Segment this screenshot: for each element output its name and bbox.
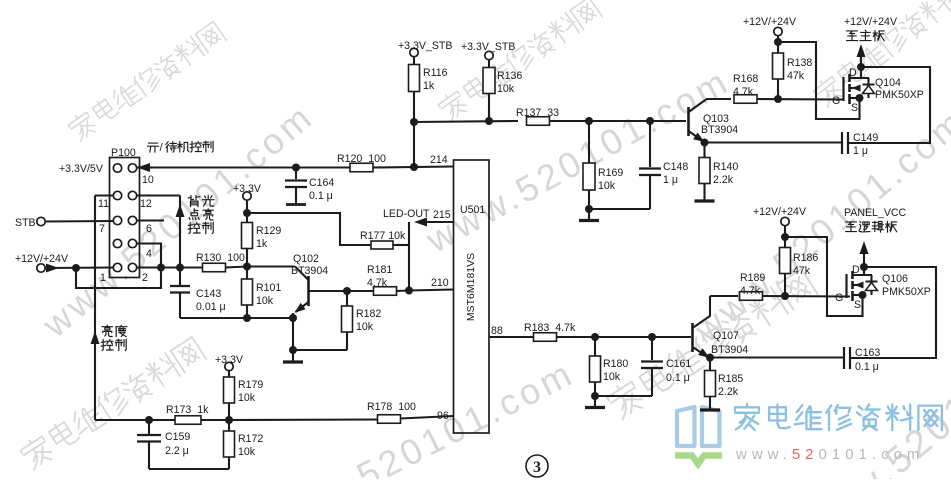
node emitter bottom rail	[289, 314, 297, 322]
node R169 junction	[585, 117, 593, 125]
wire emitter down	[292, 313, 294, 350]
svg-text:MST6M181VS: MST6M181VS	[465, 253, 477, 321]
node C148 junction	[646, 117, 654, 125]
svg-text:7: 7	[99, 223, 105, 235]
label 至主板	[847, 31, 858, 41]
svg-text:R179: R179	[238, 379, 263, 391]
wire +12V to source loop	[778, 42, 860, 119]
capacitor C149	[841, 132, 843, 154]
arrow LED-OUT	[414, 218, 427, 227]
wire emitter to C149	[705, 141, 842, 143]
node pin4/pin2 junction	[157, 264, 165, 272]
resistor R137	[527, 117, 550, 126]
label 点亮	[189, 209, 199, 220]
svg-text:LED-OUT: LED-OUT	[383, 208, 430, 220]
wire to R136	[488, 60, 490, 69]
svg-text:C159: C159	[165, 431, 190, 443]
wire R137 net left	[414, 121, 518, 122]
svg-text:2: 2	[142, 272, 148, 284]
arrow into pin10	[137, 163, 150, 172]
node C164 junction	[292, 164, 300, 172]
node R169/C148 bottom	[585, 205, 593, 213]
svg-text:C161: C161	[666, 358, 691, 370]
resistor R140	[699, 158, 710, 184]
svg-text:R186: R186	[793, 252, 818, 264]
wire U501 pin 215	[427, 221, 454, 223]
svg-text:+12V/+24V: +12V/+24V	[844, 16, 898, 28]
wire +12V under-loop	[76, 268, 161, 289]
wire R130 left	[180, 266, 203, 268]
svg-text:10k: 10k	[603, 371, 621, 383]
ground R185	[709, 397, 711, 410]
wire node to R172	[228, 420, 230, 431]
resistor R130	[203, 263, 226, 272]
node backlight/R130 junction	[176, 264, 184, 272]
node +12V junction	[72, 264, 80, 272]
svg-text:C164: C164	[309, 177, 334, 189]
node R129/R130/R101 junction	[243, 263, 251, 271]
wire R137 right	[550, 120, 651, 122]
capacitor C161	[651, 337, 653, 360]
wire to Q107 base	[652, 336, 691, 338]
node R181/R182 junction	[343, 287, 351, 295]
svg-text:U501: U501	[460, 204, 485, 216]
svg-text:3: 3	[533, 459, 541, 476]
terminal +12V (R186)	[781, 217, 789, 225]
arrow +12V right	[46, 264, 59, 273]
resistor R136	[483, 68, 495, 94]
node R116/R137 junction	[410, 118, 418, 126]
terminal +12V/+24V input	[37, 264, 45, 272]
node Q106 drain	[860, 263, 868, 271]
svg-text:R178 100: R178 100	[367, 401, 416, 413]
logo text 家电维修资料网	[735, 404, 759, 430]
wire R177 right	[393, 244, 409, 246]
page number 3 circled	[526, 455, 548, 477]
node Q103 emitter	[701, 139, 709, 147]
resistor R173	[175, 416, 201, 425]
arrow 至主板	[857, 44, 866, 57]
resistor R138	[773, 53, 784, 79]
wire backlight node to C143	[179, 268, 181, 286]
resistor R169	[583, 163, 595, 190]
label 开/待机控制	[148, 143, 159, 152]
resistor R168	[734, 95, 757, 104]
wire pin2	[136, 266, 180, 268]
svg-text:1 μ: 1 μ	[853, 145, 868, 157]
wire R168 right	[757, 98, 843, 101]
wire bottom link	[149, 468, 229, 470]
node R136/R137 junction	[485, 117, 493, 125]
capacitor C164	[295, 168, 297, 180]
svg-text:+3.3V/5V: +3.3V/5V	[59, 163, 104, 175]
wire +12V down (R186)	[784, 226, 786, 249]
wire drain up	[860, 55, 862, 78]
svg-text:+12V/+24V: +12V/+24V	[743, 16, 797, 28]
svg-text:10k: 10k	[256, 295, 274, 307]
ground R140	[703, 184, 705, 201]
transistor Q106 PMK50XP	[845, 274, 847, 298]
svg-text:R137 33: R137 33	[516, 107, 559, 119]
wire bottom link to C148	[589, 208, 650, 210]
terminal STB	[37, 217, 45, 225]
capacitor C163	[843, 347, 845, 369]
svg-text:4: 4	[146, 248, 152, 260]
terminal +3.3V_STB (R136)	[485, 51, 493, 59]
wire R116 down	[413, 92, 415, 123]
resistor R129	[242, 223, 253, 249]
logo book icon	[675, 407, 722, 464]
resistor R101	[242, 279, 253, 305]
wire collector to R168	[706, 98, 731, 100]
svg-text:0.1 μ: 0.1 μ	[309, 190, 333, 202]
wire R101 to bottom rail	[246, 305, 248, 318]
wire Q102 base	[247, 265, 295, 267]
wire STB to pin7	[45, 220, 114, 223]
wire R182 top	[346, 291, 348, 306]
svg-text:4.7k: 4.7k	[367, 277, 388, 289]
wire rail to R173	[149, 419, 175, 421]
wire emitter to C163	[710, 356, 843, 358]
svg-text:10k: 10k	[356, 321, 374, 333]
capacitor C159	[148, 420, 150, 434]
wire emitter to R140	[703, 143, 705, 159]
terminal +3.3V (Q102)	[243, 192, 251, 200]
transistor Q102 BT3904	[307, 276, 310, 306]
resistor R189	[740, 292, 763, 301]
arrow PANEL_VCC	[860, 241, 869, 254]
transistor Q104 PMK50XP	[842, 77, 844, 101]
resistor R172	[224, 431, 235, 457]
resistor R186	[780, 248, 791, 274]
wire pin12 to vertical	[136, 194, 180, 196]
resistor R183	[534, 333, 557, 342]
svg-text:11: 11	[98, 198, 109, 210]
transistor Q107 BT3904	[691, 323, 694, 352]
terminal +3.3V_STB (R116)	[410, 48, 418, 56]
label 控制	[188, 223, 200, 234]
svg-text:R177 10k: R177 10k	[360, 230, 406, 242]
svg-text:2.2 μ: 2.2 μ	[165, 445, 189, 457]
wire R173 to node	[201, 419, 229, 421]
svg-text:R140: R140	[713, 161, 738, 173]
label 背光	[188, 196, 200, 207]
resistor R179	[224, 377, 235, 403]
resistor R182	[342, 306, 353, 332]
svg-text:STB: STB	[15, 217, 36, 229]
svg-text:R185: R185	[718, 373, 743, 385]
svg-text:10k: 10k	[238, 392, 256, 404]
svg-text:R136: R136	[497, 70, 522, 82]
node +12V branch (R186)	[781, 233, 789, 241]
wire drain up (Q106)	[863, 252, 865, 275]
resistor R178	[378, 415, 401, 424]
node Q104 source	[856, 94, 864, 102]
svg-text:S: S	[854, 299, 861, 311]
svg-text:R182: R182	[356, 308, 381, 320]
svg-text:12: 12	[140, 198, 152, 210]
wire R177 vertical	[408, 222, 410, 291]
svg-text:Q106: Q106	[882, 273, 908, 285]
wire rail to R178	[229, 418, 378, 421]
svg-text:www.520101.com: www.520101.com	[735, 446, 924, 463]
ground Q102 emitter	[292, 350, 294, 361]
svg-text:BT3904: BT3904	[291, 265, 328, 277]
wire R186 down	[784, 274, 786, 297]
resistor R185	[705, 371, 716, 397]
resistor R120	[350, 163, 373, 172]
label 亮度	[102, 325, 113, 336]
capacitor C148	[649, 121, 651, 167]
terminal +12V (R138)	[774, 27, 782, 35]
svg-text:2.2k: 2.2k	[718, 386, 739, 398]
svg-text:0.01 μ: 0.01 μ	[196, 301, 226, 313]
transistor Q103 BT3904	[687, 107, 690, 136]
node C161 junction	[648, 333, 656, 341]
svg-text:G: G	[835, 292, 843, 304]
svg-text:D: D	[849, 67, 857, 79]
node Q106 source	[859, 291, 867, 299]
svg-text:Q102: Q102	[293, 253, 319, 265]
ground R180	[594, 396, 596, 406]
node C159 junction	[145, 416, 153, 424]
svg-text:BT3904: BT3904	[711, 344, 748, 356]
node R179/R172 junction	[225, 416, 233, 424]
node R186/gate junction	[781, 292, 789, 300]
wire to Q103 base	[650, 120, 686, 122]
node R101 bottom	[243, 314, 251, 322]
svg-text:R138: R138	[787, 57, 812, 69]
wire R120 to U501 pin 214	[373, 167, 454, 168]
svg-text:R129: R129	[256, 225, 281, 237]
svg-text:PMK50XP: PMK50XP	[882, 286, 931, 298]
wire R180 top	[594, 337, 596, 356]
node Q107 emitter	[706, 354, 714, 362]
svg-text:1k: 1k	[423, 80, 435, 92]
svg-text:0.1 μ: 0.1 μ	[855, 361, 879, 373]
wire Q102 bottom rail	[180, 317, 293, 319]
wire C163 right to drain loop (Q106)	[851, 267, 937, 358]
label 至逻辑板	[846, 222, 857, 232]
svg-text:P100: P100	[111, 147, 136, 159]
resistor R180	[590, 356, 601, 382]
svg-text:Q107: Q107	[713, 330, 739, 342]
svg-text:R173 1k: R173 1k	[166, 404, 209, 416]
wire R180 bottom	[594, 382, 596, 396]
wire R183 right	[557, 336, 653, 338]
node R116/214 junction	[410, 163, 418, 171]
svg-text:R116: R116	[423, 67, 448, 79]
wire pin10 to R120 (standby control)	[136, 166, 350, 168]
node R177/R181/210 junction	[405, 287, 413, 295]
wire +12V to source loop (Q106)	[785, 237, 863, 316]
node R180 junction	[591, 333, 599, 341]
svg-text:Q104: Q104	[875, 77, 901, 89]
wire +3.3V to R179	[228, 371, 230, 378]
svg-text:215: 215	[433, 209, 451, 221]
wire R172 bottom	[228, 457, 230, 469]
wire R169 top	[588, 121, 590, 163]
svg-text:R183 4.7k: R183 4.7k	[524, 322, 576, 334]
wire pin4	[136, 244, 161, 268]
wire to R116	[413, 57, 415, 66]
svg-text:R120 100: R120 100	[337, 153, 386, 165]
wire brightness vertical	[94, 196, 96, 421]
wire brightness to rail	[95, 419, 149, 421]
node R180 bottom	[591, 392, 599, 400]
resistor R116	[409, 65, 420, 92]
svg-text:G: G	[832, 95, 840, 107]
resistor R177	[371, 241, 393, 249]
svg-text:R130 100: R130 100	[196, 252, 245, 264]
IC U501 body	[454, 160, 490, 433]
wire R138 down	[777, 79, 779, 99]
svg-text:R169: R169	[598, 167, 623, 179]
node R138/gate junction	[774, 95, 782, 103]
arrow brightness up	[91, 331, 100, 344]
wire 210 to U501	[409, 290, 454, 291]
svg-text:R172: R172	[238, 433, 263, 445]
ground R169	[588, 209, 590, 219]
node Q104 drain	[857, 63, 865, 71]
svg-text:R101: R101	[256, 282, 281, 294]
svg-text:PANEL_VCC: PANEL_VCC	[844, 207, 907, 219]
connector P100 pins	[113, 164, 136, 272]
svg-text:BT3904: BT3904	[701, 124, 738, 136]
wire 214 node up to R116 net	[413, 122, 415, 167]
svg-text:2.2k: 2.2k	[713, 174, 734, 186]
arrow backlight control up	[176, 204, 185, 217]
svg-text:47k: 47k	[787, 70, 805, 82]
capacitor C143	[170, 285, 190, 287]
svg-text:PMK50XP: PMK50XP	[875, 89, 924, 101]
svg-text:10: 10	[142, 174, 154, 186]
node +3.3V junction	[243, 209, 251, 217]
svg-text:210: 210	[431, 277, 449, 289]
wire pin6 stub	[136, 219, 164, 221]
svg-text:47k: 47k	[793, 265, 811, 277]
svg-text:4.7k: 4.7k	[740, 285, 761, 297]
svg-text:10k: 10k	[497, 83, 515, 95]
svg-text:R180: R180	[603, 358, 628, 370]
terminal +3.3V (R179)	[225, 362, 233, 370]
wire R178 to U501 pin 96	[401, 416, 454, 419]
svg-text:0.1 μ: 0.1 μ	[666, 372, 690, 384]
svg-text:D: D	[852, 264, 860, 276]
wire R189 right	[763, 295, 851, 298]
wire U501 pin 88	[489, 336, 534, 338]
node emitter/ground junction	[289, 346, 297, 354]
wire R181 left	[347, 290, 374, 292]
wire backlight vertical	[179, 196, 181, 268]
svg-text:R189: R189	[740, 272, 765, 284]
node +12V branch	[774, 38, 782, 46]
svg-text:214: 214	[430, 154, 448, 166]
wire R130 right	[226, 267, 248, 268]
svg-text:+12V/+24V: +12V/+24V	[753, 206, 807, 218]
svg-text:C148: C148	[663, 161, 688, 173]
wire R181 right	[397, 289, 410, 292]
wire emitter to R185	[709, 358, 711, 372]
svg-text:4.7k: 4.7k	[733, 86, 754, 98]
connector P100 body	[110, 158, 140, 278]
svg-text:R181: R181	[367, 264, 392, 276]
svg-text:10k: 10k	[238, 446, 256, 458]
wire +3.3V to R177	[247, 213, 371, 245]
wire pin11 stub	[95, 194, 114, 196]
svg-text:+3.3V_STB: +3.3V_STB	[398, 40, 452, 52]
svg-text:10k: 10k	[598, 180, 616, 192]
wire R182 bottom	[346, 332, 348, 350]
wire R129 to junction	[246, 249, 248, 267]
wire R136 down	[488, 94, 490, 122]
svg-text:1 μ: 1 μ	[663, 174, 678, 186]
wire +12V down	[777, 36, 779, 54]
svg-text:88: 88	[491, 325, 503, 337]
wire +3.3V down	[246, 200, 248, 255]
svg-text:96: 96	[437, 410, 449, 422]
wire emitter rail to R182	[293, 349, 347, 351]
label 控制 brightness	[101, 340, 113, 351]
svg-text:1k: 1k	[256, 238, 268, 250]
wire +12V to pin1	[45, 266, 114, 269]
svg-text:C143: C143	[196, 288, 221, 300]
wire bottom link C161	[595, 395, 652, 397]
svg-text:+12V/+24V: +12V/+24V	[15, 253, 69, 265]
wire junction to R101	[246, 267, 248, 280]
wire R179 to node	[228, 403, 230, 420]
svg-text:6: 6	[146, 223, 152, 235]
svg-text:1: 1	[100, 272, 106, 284]
wire C149 right to drain loop	[849, 67, 931, 143]
wire R169 bottom	[588, 190, 590, 209]
svg-text:S: S	[851, 102, 858, 114]
resistor R181	[374, 287, 397, 296]
svg-text:R168: R168	[733, 73, 758, 85]
wire collector to R189	[710, 295, 738, 297]
